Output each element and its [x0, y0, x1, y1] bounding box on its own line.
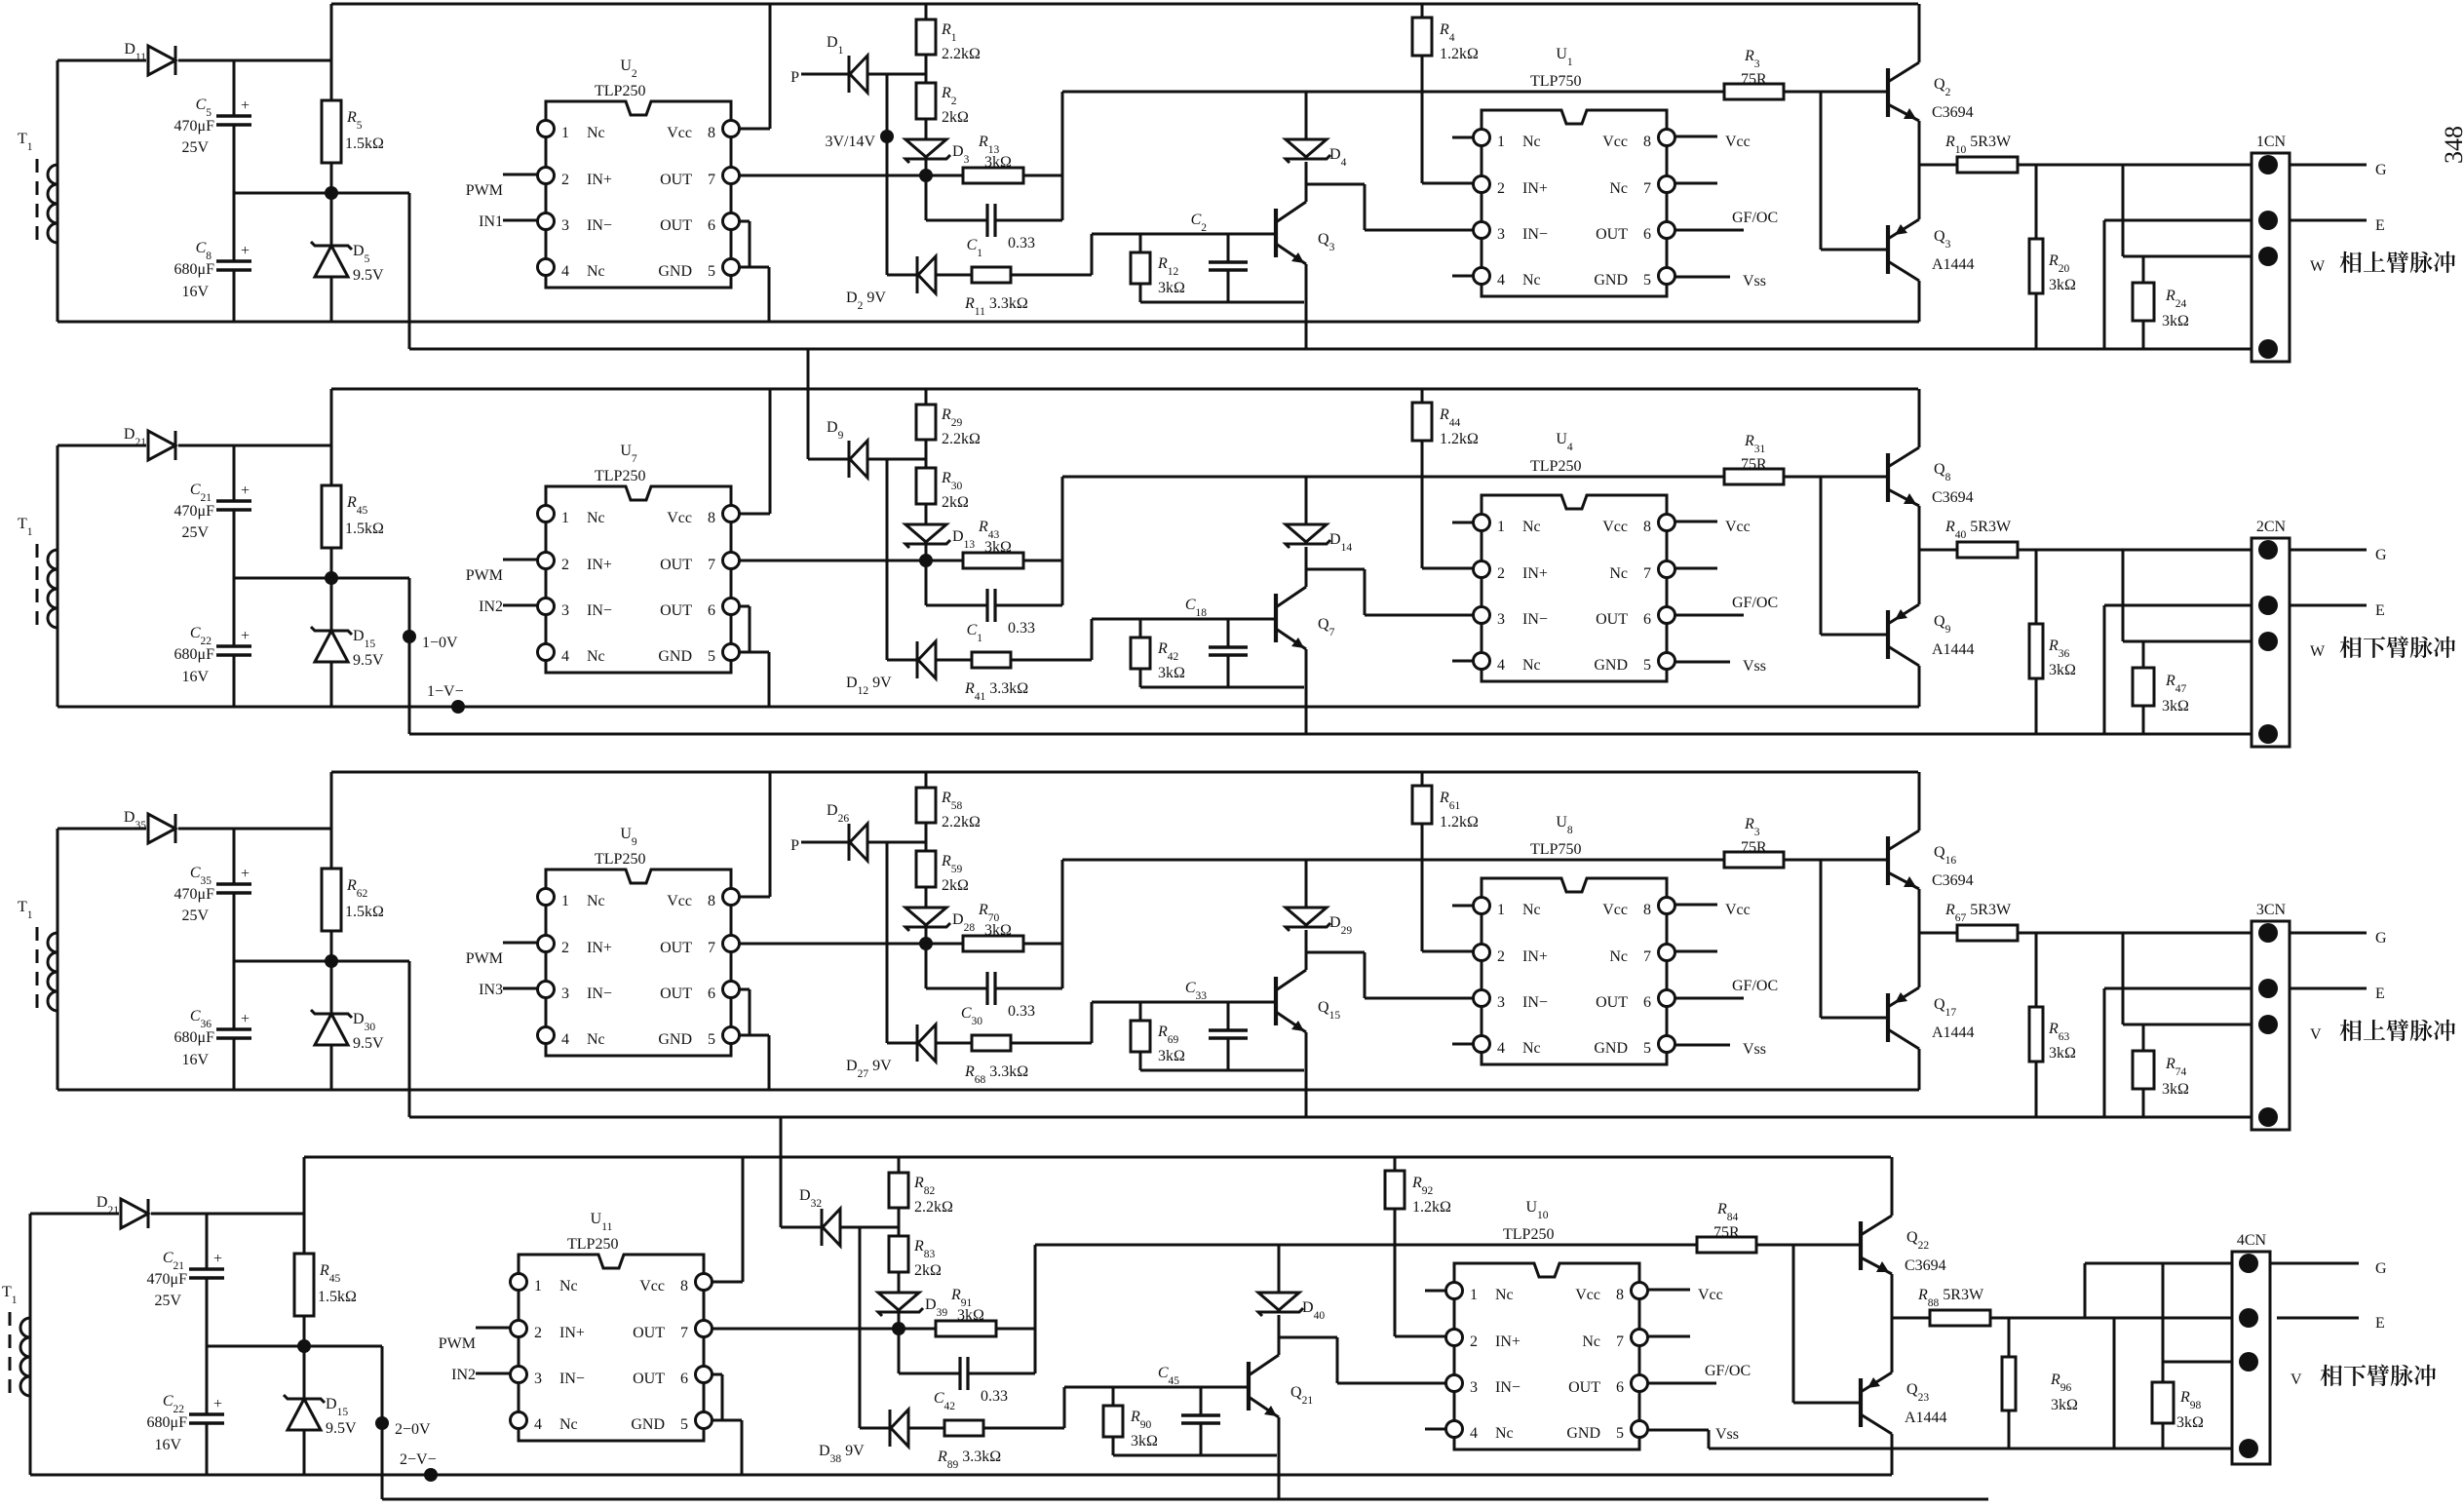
pin 4CN.1 — [2239, 1254, 2258, 1273]
wire R88 out row4 — [1990, 1317, 2241, 1320]
svg-text:TLP250: TLP250 — [1530, 458, 1581, 475]
capacitor C42 — [899, 1329, 1035, 1412]
capacitor C1 — [926, 175, 1062, 259]
node E — [2375, 217, 2385, 234]
svg-text:+: + — [241, 866, 250, 882]
svg-text:4: 4 — [1497, 657, 1505, 674]
svg-text:W: W — [2310, 258, 2326, 275]
text W相上臂脉冲 — [2310, 251, 2455, 275]
svg-text:5: 5 — [1616, 1425, 1624, 1442]
svg-text:TLP750: TLP750 — [1530, 841, 1581, 858]
zener diode D38 — [819, 1410, 944, 1465]
svg-text:2.2kΩ: 2.2kΩ — [914, 1199, 953, 1216]
svg-text:Nc: Nc — [1609, 180, 1628, 197]
svg-text:Nc: Nc — [1522, 134, 1541, 150]
svg-text:Nc: Nc — [587, 263, 605, 280]
resistor R20 — [2029, 165, 2076, 349]
svg-text:+: + — [241, 243, 250, 259]
wire emitter drop row2 — [1305, 649, 1308, 734]
resistor R70 — [963, 902, 1062, 951]
wire IN- row1 — [1306, 184, 1473, 230]
svg-text:8: 8 — [708, 510, 715, 526]
svg-text:Vcc: Vcc — [1698, 1287, 1723, 1303]
resistor R69 — [1131, 1002, 1185, 1070]
text W相下臂脉冲 — [2310, 637, 2455, 660]
node 0V row1 — [234, 186, 409, 200]
zener diode D12 — [846, 641, 972, 697]
resistor R45 — [294, 1157, 357, 1346]
svg-text:9.5V: 9.5V — [353, 267, 384, 284]
svg-text:IN−: IN− — [1495, 1379, 1521, 1396]
svg-text:Vcc: Vcc — [1725, 134, 1751, 150]
wire U11 OUT6 row4 — [712, 1374, 722, 1420]
svg-text:1.5kΩ: 1.5kΩ — [345, 904, 384, 920]
transformer T1 — [18, 899, 58, 1017]
zener diode D30 — [311, 961, 384, 1090]
svg-text:4: 4 — [1470, 1425, 1478, 1442]
zener diode D5 — [311, 193, 384, 322]
pin 2CN.1 — [2258, 540, 2278, 560]
node Vcc row4 — [1647, 1287, 1723, 1303]
svg-text:+: + — [241, 97, 250, 114]
wire U7 OUT6 row2 — [739, 606, 750, 652]
op-amp U4 TLP250 — [1452, 431, 1675, 681]
resistor R40 — [1919, 519, 2018, 558]
svg-text:7: 7 — [1643, 180, 1651, 197]
svg-text:25V: 25V — [181, 139, 209, 156]
svg-text:Nc: Nc — [587, 510, 605, 526]
svg-text:IN−: IN− — [1522, 994, 1548, 1011]
svg-text:470μF: 470μF — [174, 118, 215, 135]
wire top rail row2 — [331, 388, 1918, 391]
capacitor C36 — [174, 961, 251, 1090]
wire feedback row3 — [1062, 860, 1724, 988]
svg-text:Vcc: Vcc — [1602, 519, 1628, 535]
resistor R4 — [1412, 4, 1479, 92]
svg-text:25V: 25V — [181, 908, 209, 924]
svg-text:Nc: Nc — [587, 648, 605, 665]
svg-text:Nc: Nc — [1609, 948, 1628, 965]
svg-text:16V: 16V — [181, 284, 209, 300]
node Vcc row2 — [1675, 519, 1751, 535]
svg-text:5: 5 — [1643, 272, 1651, 289]
svg-text:1CN: 1CN — [2256, 134, 2287, 150]
wire collector row2 — [1305, 547, 1308, 587]
wire collector row4 — [1278, 1315, 1281, 1355]
svg-text:8: 8 — [680, 1278, 688, 1294]
svg-text:5: 5 — [1643, 657, 1651, 674]
svg-text:IN+: IN+ — [587, 557, 612, 573]
capacitor C30 — [926, 944, 1062, 1027]
svg-text:IN−: IN− — [1522, 226, 1548, 243]
resistor R42 — [1131, 619, 1185, 687]
svg-text:Nc: Nc — [1522, 519, 1541, 535]
svg-text:G: G — [2375, 1260, 2387, 1277]
svg-text:1: 1 — [561, 510, 569, 526]
svg-text:1: 1 — [561, 125, 569, 141]
svg-text:680μF: 680μF — [174, 261, 215, 278]
wire Nc7 stub row4 — [1647, 1335, 1690, 1338]
svg-text:Vss: Vss — [1743, 658, 1766, 675]
svg-text:GND: GND — [658, 648, 692, 665]
resistor R90 — [1103, 1387, 1158, 1455]
svg-text:PWM: PWM — [439, 1335, 476, 1352]
svg-text:1: 1 — [534, 1278, 542, 1294]
transistor Q3 — [1888, 165, 1975, 322]
resistor R89 — [937, 1420, 1064, 1471]
svg-text:IN+: IN+ — [587, 172, 612, 188]
svg-text:OUT: OUT — [633, 1325, 665, 1341]
wire feedback row1 — [1062, 92, 1724, 220]
wire top rail row1 — [331, 3, 1918, 6]
svg-text:16V: 16V — [181, 1052, 209, 1068]
resistor R68 — [964, 1035, 1092, 1086]
svg-text:1.2kΩ: 1.2kΩ — [1440, 431, 1479, 447]
svg-text:2kΩ: 2kΩ — [942, 877, 969, 894]
wire U9 OUT6 row3 — [739, 989, 750, 1035]
wire P branch row4 — [859, 1227, 862, 1428]
zener diode D14 — [1286, 477, 1352, 554]
resistor R29 — [916, 389, 981, 468]
wire P branch row1 — [886, 74, 889, 275]
svg-text:V: V — [2291, 1372, 2302, 1388]
svg-text:Vcc: Vcc — [667, 893, 692, 909]
pin 3CN.3 — [2258, 1015, 2278, 1034]
wire U7 GND row2 — [739, 652, 769, 707]
diode D9 — [827, 419, 926, 478]
svg-text:4: 4 — [1497, 1040, 1505, 1057]
zener diode D40 — [1258, 1245, 1325, 1322]
resistor R3 — [1724, 48, 1888, 99]
node Vcc row1 — [1675, 134, 1751, 150]
pin 4CN.3 — [2239, 1352, 2258, 1372]
wire feed from row1 — [808, 349, 849, 459]
resistor R1 — [916, 4, 981, 83]
transistor Q7 — [1276, 587, 1335, 649]
resistor R12 — [1131, 234, 1185, 302]
wire Nc7 stub row1 — [1675, 182, 1717, 185]
connector 3CN — [2252, 902, 2290, 1130]
svg-text:680μF: 680μF — [174, 1029, 215, 1046]
svg-text:348: 348 — [2440, 126, 2464, 164]
transistor Q3 — [1276, 202, 1335, 264]
connector 4CN — [2232, 1232, 2270, 1464]
svg-text:PWM: PWM — [466, 567, 503, 584]
connector 2CN — [2252, 519, 2290, 747]
svg-text:TLP250: TLP250 — [595, 468, 645, 484]
wire feedback row2 — [1062, 477, 1724, 605]
svg-text:9.5V: 9.5V — [353, 652, 384, 669]
node 2−0V — [375, 1416, 431, 1438]
wire ground rail row3 — [58, 1089, 1919, 1092]
svg-text:6: 6 — [708, 217, 715, 234]
wire base row2 — [1092, 619, 1276, 660]
svg-text:C3694: C3694 — [1932, 489, 1974, 506]
svg-text:1.5kΩ: 1.5kΩ — [318, 1289, 357, 1305]
pin 4CN.2 — [2239, 1308, 2258, 1328]
node GF/OC row4 — [1647, 1363, 1751, 1383]
resistor R82 — [889, 1157, 953, 1236]
wire U2 Vcc row1 — [739, 4, 770, 129]
svg-text:4: 4 — [561, 648, 569, 665]
svg-text:8: 8 — [1643, 902, 1651, 918]
svg-text:GND: GND — [1594, 657, 1628, 674]
svg-text:3kΩ: 3kΩ — [984, 922, 1012, 939]
resistor R61 — [1412, 772, 1479, 860]
svg-text:IN3: IN3 — [479, 982, 503, 998]
svg-text:Vcc: Vcc — [1602, 902, 1628, 918]
node PWM IN1 — [466, 174, 537, 230]
wire feed from row3 — [781, 1117, 822, 1227]
wire U2 OUT6 row1 — [739, 221, 750, 267]
transistor Q23 — [1861, 1318, 1947, 1475]
node G — [2375, 930, 2387, 947]
capacitor C22 — [174, 578, 251, 707]
wire U9 OUT7 row3 — [739, 937, 963, 950]
diode D11 — [124, 41, 330, 75]
resistor R5 — [322, 4, 384, 193]
svg-text:Vcc: Vcc — [639, 1278, 665, 1294]
resistor R88 — [1892, 1287, 1990, 1326]
wire IN- row4 — [1279, 1337, 1445, 1383]
svg-text:2: 2 — [1497, 948, 1505, 965]
transistor Q9 — [1888, 550, 1975, 707]
wire U11 Vcc row4 — [712, 1157, 743, 1282]
op-amp U2 TLP250 — [538, 58, 740, 288]
resistor R24 — [2133, 256, 2189, 349]
svg-text:OUT: OUT — [1596, 226, 1628, 243]
transistor Q8 — [1888, 389, 1974, 550]
wire transformer left row1 — [58, 60, 146, 322]
op-amp U7 TLP250 — [538, 443, 740, 673]
op-amp U8 TLP750 — [1452, 814, 1675, 1064]
svg-text:2kΩ: 2kΩ — [942, 494, 969, 511]
op-amp U1 TLP750 — [1452, 46, 1675, 296]
resistor R36 — [2029, 550, 2076, 734]
zener diode D15 — [284, 1346, 357, 1475]
svg-text:Nc: Nc — [1522, 272, 1541, 289]
diode D32 — [799, 1187, 899, 1246]
svg-text:TLP250: TLP250 — [567, 1236, 618, 1253]
svg-text:3V/14V: 3V/14V — [825, 134, 875, 150]
svg-text:GF/OC: GF/OC — [1732, 595, 1778, 611]
svg-text:TLP250: TLP250 — [595, 851, 645, 868]
svg-text:0.33: 0.33 — [1008, 235, 1035, 251]
wire U2 OUT7 row1 — [739, 169, 963, 182]
wire U7 OUT7 row2 — [739, 554, 963, 567]
svg-text:6: 6 — [1616, 1379, 1624, 1396]
pin 2CN.3 — [2258, 632, 2278, 651]
svg-text:2: 2 — [561, 940, 569, 956]
wire transformer left row3 — [58, 829, 146, 1090]
resistor R98 — [2152, 1362, 2204, 1449]
svg-text:4CN: 4CN — [2237, 1232, 2267, 1249]
svg-text:3: 3 — [1497, 994, 1505, 1011]
wire feedback row4 — [1035, 1245, 1697, 1373]
resistor R62 — [322, 772, 384, 961]
svg-text:A1444: A1444 — [1932, 641, 1975, 658]
svg-text:3kΩ: 3kΩ — [1131, 1433, 1158, 1449]
svg-text:TLP250: TLP250 — [595, 83, 645, 99]
node 0V row4 — [207, 1339, 382, 1353]
pin 3CN.4 — [2258, 1107, 2278, 1127]
svg-text:Nc: Nc — [1495, 1425, 1514, 1442]
text V相上臂脉冲 — [2310, 1020, 2455, 1043]
svg-text:Vss: Vss — [1715, 1426, 1739, 1443]
svg-text:Vss: Vss — [1743, 1041, 1766, 1058]
svg-text:470μF: 470μF — [147, 1271, 188, 1288]
wire Nc7 stub row2 — [1675, 567, 1717, 570]
resistor R41 — [964, 652, 1092, 703]
svg-text:+: + — [213, 1396, 222, 1412]
resistor R92 — [1385, 1157, 1451, 1245]
svg-text:8: 8 — [1616, 1287, 1624, 1303]
svg-text:C3694: C3694 — [1905, 1257, 1946, 1274]
svg-text:Nc: Nc — [1495, 1287, 1514, 1303]
pin 1CN.4 — [2258, 339, 2278, 359]
svg-text:GF/OC: GF/OC — [1732, 210, 1778, 226]
zener diode D28 — [905, 908, 975, 944]
resistor R13 — [963, 134, 1062, 183]
svg-text:1: 1 — [1497, 519, 1505, 535]
resistor R30 — [916, 468, 969, 524]
svg-text:GND: GND — [1594, 272, 1628, 289]
svg-text:0.33: 0.33 — [1008, 1003, 1035, 1020]
diode D21 — [96, 1194, 303, 1228]
wire pin3 row3 — [2123, 933, 2260, 1024]
svg-text:3kΩ: 3kΩ — [984, 539, 1012, 556]
diode D35 — [124, 809, 330, 843]
svg-text:Nc: Nc — [587, 125, 605, 141]
node PWM IN2 — [439, 1328, 510, 1383]
svg-text:GND: GND — [1566, 1425, 1600, 1442]
wire base2 row2 — [1821, 477, 1888, 635]
wire IN+ row2 — [1422, 477, 1473, 568]
svg-text:GF/OC: GF/OC — [1705, 1363, 1751, 1379]
wire V- rail row4 — [382, 1346, 1988, 1499]
svg-text:3: 3 — [561, 602, 569, 619]
svg-text:3kΩ: 3kΩ — [2049, 277, 2076, 293]
wire E drop row4 — [2113, 1318, 2116, 1449]
svg-text:2.2kΩ: 2.2kΩ — [942, 431, 981, 447]
node Vss row4 — [1647, 1426, 1739, 1443]
wire collector row1 — [1305, 162, 1308, 202]
svg-text:IN1: IN1 — [479, 213, 503, 230]
resistor R45 — [322, 389, 384, 578]
svg-text:7: 7 — [708, 557, 715, 573]
svg-text:1: 1 — [1497, 134, 1505, 150]
svg-text:2: 2 — [561, 172, 569, 188]
transformer T1 — [18, 131, 58, 249]
resistor R11 — [964, 267, 1092, 318]
node PWM IN2 — [466, 560, 537, 615]
wire emitter net row2 — [1140, 686, 1304, 689]
svg-text:1: 1 — [561, 893, 569, 909]
svg-text:2: 2 — [1497, 180, 1505, 197]
svg-text:OUT: OUT — [660, 172, 692, 188]
svg-text:IN2: IN2 — [451, 1367, 476, 1383]
svg-text:5: 5 — [708, 263, 715, 280]
svg-text:3kΩ: 3kΩ — [2176, 1414, 2204, 1431]
node GF/OC row2 — [1675, 595, 1778, 615]
svg-text:8: 8 — [1643, 519, 1651, 535]
node Vss row1 — [1675, 273, 1766, 290]
wire pin3 row4 — [2163, 1263, 2241, 1362]
node PWM IN3 — [466, 943, 537, 998]
svg-text:3: 3 — [1497, 226, 1505, 243]
node G — [2375, 162, 2387, 178]
node Vss row3 — [1675, 1041, 1766, 1058]
svg-text:OUT: OUT — [660, 940, 692, 956]
svg-text:+: + — [213, 1251, 222, 1267]
svg-text:470μF: 470μF — [174, 503, 215, 520]
svg-text:IN−: IN− — [587, 602, 612, 619]
svg-text:0.33: 0.33 — [1008, 620, 1035, 637]
diode D1 — [827, 34, 926, 93]
wire U9 GND row3 — [739, 1035, 769, 1090]
svg-text:A1444: A1444 — [1932, 1024, 1975, 1041]
node G — [2375, 547, 2387, 563]
transistor Q15 — [1276, 970, 1340, 1032]
resistor R63 — [2029, 933, 2076, 1117]
wire collector row3 — [1305, 930, 1308, 970]
svg-text:IN+: IN+ — [1522, 180, 1548, 197]
svg-text:680μF: 680μF — [147, 1414, 188, 1431]
svg-text:0.33: 0.33 — [981, 1388, 1008, 1405]
svg-text:680μF: 680μF — [174, 646, 215, 663]
zener diode D39 — [878, 1293, 947, 1329]
svg-text:Nc: Nc — [1609, 565, 1628, 582]
svg-text:2CN: 2CN — [2256, 519, 2287, 535]
svg-text:IN+: IN+ — [1495, 1333, 1521, 1350]
svg-text:7: 7 — [708, 940, 715, 956]
svg-text:2: 2 — [1470, 1333, 1478, 1350]
svg-text:IN−: IN− — [587, 985, 612, 1002]
wire U11 GND row4 — [712, 1420, 742, 1475]
svg-text:5: 5 — [708, 1031, 715, 1048]
svg-text:OUT: OUT — [1596, 611, 1628, 628]
wire bottom net row4 — [1703, 1430, 2241, 1449]
svg-text:+: + — [241, 483, 250, 499]
wire IN+ row1 — [1422, 92, 1473, 183]
svg-text:3: 3 — [561, 985, 569, 1002]
wire P branch row2 — [886, 459, 889, 660]
svg-text:OUT: OUT — [660, 985, 692, 1002]
svg-text:Vcc: Vcc — [1602, 134, 1628, 150]
svg-text:3kΩ: 3kΩ — [1158, 665, 1185, 681]
svg-text:7: 7 — [708, 172, 715, 188]
wire transformer left row4 — [30, 1214, 119, 1475]
wire top rail row3 — [331, 771, 1918, 774]
svg-text:1.5kΩ: 1.5kΩ — [345, 135, 384, 152]
svg-text:7: 7 — [1643, 948, 1651, 965]
zener diode D13 — [905, 524, 975, 560]
svg-text:GND: GND — [658, 263, 692, 280]
wire E row2 — [2104, 605, 2367, 734]
svg-text:1: 1 — [1470, 1287, 1478, 1303]
resistor R47 — [2133, 641, 2189, 734]
svg-text:PWM: PWM — [466, 950, 503, 967]
svg-text:9.5V: 9.5V — [326, 1420, 357, 1437]
svg-text:470μF: 470μF — [174, 886, 215, 903]
wire IN+ row4 — [1395, 1245, 1445, 1336]
svg-text:Vss: Vss — [1743, 273, 1766, 290]
svg-text:G: G — [2375, 547, 2387, 563]
node GF/OC row3 — [1675, 978, 1778, 998]
transistor Q17 — [1888, 933, 1975, 1090]
text V相下臂脉冲 — [2291, 1365, 2436, 1388]
svg-text:5: 5 — [708, 648, 715, 665]
